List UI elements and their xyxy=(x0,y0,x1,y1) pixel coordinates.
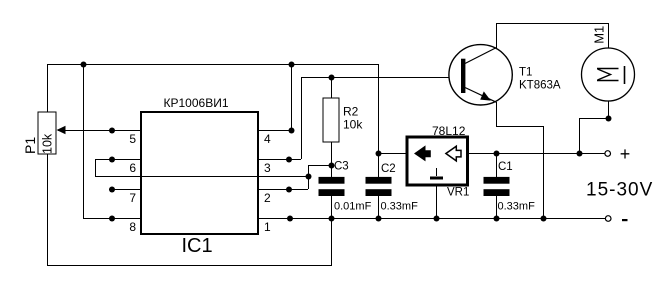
junction top rail / pin4 riser xyxy=(289,62,295,68)
junction pin 2 xyxy=(286,187,292,193)
svg-text:8: 8 xyxy=(129,220,136,234)
capacitor C1 bottom plate xyxy=(484,189,510,196)
svg-text:3: 3 xyxy=(264,161,271,175)
svg-text:P1: P1 xyxy=(22,137,38,154)
svg-text:6: 6 xyxy=(129,161,136,175)
svg-text:10k: 10k xyxy=(343,118,363,132)
transistor T1 base bar xyxy=(461,59,465,93)
wire Vcc riser to pin 8 xyxy=(83,64,85,218)
wire pin6-pin2 link through IC xyxy=(95,176,308,178)
capacitor C2 top plate xyxy=(366,177,392,184)
wire pin 7 stub xyxy=(109,189,141,191)
junction C1 on + rail xyxy=(494,151,500,157)
svg-text:0.33mF: 0.33mF xyxy=(381,201,419,213)
transistor T1 emitter arrow xyxy=(480,91,491,100)
potentiometer P1 wiper arrow xyxy=(57,126,66,134)
motor M1 circle xyxy=(582,48,635,101)
wire pin 2 riser xyxy=(308,165,310,189)
junction node 2/6 through-line xyxy=(306,174,312,180)
wire C1 bottom lead xyxy=(496,196,498,219)
wire motor bottom horizontal xyxy=(579,118,609,120)
svg-text:5: 5 xyxy=(129,132,136,146)
wire motor top drop xyxy=(608,23,610,48)
svg-text:4: 4 xyxy=(264,132,271,146)
terminal + circle xyxy=(605,151,611,157)
junction motor bottom corner xyxy=(606,116,612,122)
VR1 input arrow (hollow) xyxy=(446,146,461,161)
junction emitter on ground rail xyxy=(541,216,547,222)
junction top rail / pin8 riser xyxy=(81,62,87,68)
motor M glyph zigzag xyxy=(598,69,611,80)
junction R2 top on base rail xyxy=(329,75,335,81)
wire node 2/6 to R2-C3 junction xyxy=(308,165,331,167)
wire pin 3 xyxy=(258,159,301,161)
VR1 output arrow (filled) xyxy=(414,145,431,161)
junction VR1 gnd on ground rail xyxy=(434,216,440,222)
wire P1 bottom drop xyxy=(47,154,49,265)
wire VR1 output pin xyxy=(378,153,407,155)
svg-text:10k: 10k xyxy=(41,133,55,154)
svg-text:IC1: IC1 xyxy=(181,235,212,257)
junction C3 on ground rail xyxy=(329,216,335,222)
label - xyxy=(622,219,628,221)
capacitor C3 top plate xyxy=(319,177,345,184)
junction pin 1 xyxy=(287,216,293,222)
wire C2 top lead xyxy=(378,153,380,177)
wire pin 6 loop drop xyxy=(95,159,97,176)
junction C1 on ground rail xyxy=(494,216,500,222)
svg-text:C1: C1 xyxy=(498,161,513,173)
voltage regulator VR1 box xyxy=(407,137,468,185)
wire VR1 ground lead xyxy=(436,185,438,218)
svg-text:C3: C3 xyxy=(334,161,349,173)
svg-text:C2: C2 xyxy=(381,163,396,175)
transistor T1 collector diagonal xyxy=(465,48,497,64)
transistor T1 emitter diagonal xyxy=(465,88,497,103)
wire pin 4 xyxy=(258,130,291,132)
wire C3 bottom lead xyxy=(331,196,333,219)
wire motor to + rail drop xyxy=(579,118,581,153)
svg-text:T1: T1 xyxy=(519,67,532,79)
svg-text:VR1: VR1 xyxy=(447,187,469,199)
svg-text:0.33mF: 0.33mF xyxy=(498,201,536,213)
svg-text:78L12: 78L12 xyxy=(432,124,466,138)
VR1 internal ground bar xyxy=(430,177,443,180)
wire emitter drop xyxy=(496,102,498,126)
wire pin 3 riser xyxy=(301,77,303,159)
wire pin 6 xyxy=(95,159,141,161)
svg-text:R2: R2 xyxy=(343,105,359,119)
motor M glyph bottom bar xyxy=(597,80,619,82)
wire emitter horizontal xyxy=(496,126,543,128)
svg-text:0.01mF: 0.01mF xyxy=(334,201,372,213)
terminal - circle xyxy=(605,216,611,222)
motor M glyph (rotated M) top bar xyxy=(597,68,619,70)
wire +12V top rail xyxy=(47,64,378,66)
wire C1 top lead xyxy=(496,153,498,177)
potentiometer P1 body xyxy=(38,112,56,154)
junction pin 4 xyxy=(289,128,295,134)
svg-text:7: 7 xyxy=(129,191,136,205)
svg-text:15-30V: 15-30V xyxy=(586,180,653,201)
capacitor C2 bottom plate xyxy=(366,189,392,196)
svg-text:1: 1 xyxy=(264,220,271,234)
wire ground rail pin 1 xyxy=(258,218,605,220)
wire bottom rail riser to ground rail xyxy=(331,218,333,265)
svg-text:2: 2 xyxy=(264,191,271,205)
junction motor branch on + rail xyxy=(577,151,583,157)
wire collector riser xyxy=(496,23,498,48)
junction C2 on ground rail xyxy=(376,216,382,222)
wire output rail to base xyxy=(301,77,460,79)
junction pin 5 xyxy=(109,128,115,134)
motor M underline bar xyxy=(624,66,626,84)
junction pin 7 xyxy=(109,187,115,193)
capacitor C3 bottom plate xyxy=(319,189,345,196)
wire pin 4 riser to top rail xyxy=(291,64,293,130)
wire pin 8 xyxy=(83,218,141,220)
wire R2 top lead xyxy=(331,77,333,98)
wire bottom ground return rail xyxy=(47,265,332,267)
wire pin 5 to P1 wiper xyxy=(58,130,141,132)
wire C2 bottom lead xyxy=(378,196,380,219)
wire R2 bottom lead to C3 xyxy=(331,142,333,177)
svg-text:M1: M1 xyxy=(592,26,607,44)
op-amp IC1 body КР1006ВИ1 xyxy=(141,112,258,234)
junction pin 3 xyxy=(286,157,292,163)
wire pin 2 xyxy=(258,189,308,191)
wire emitter riser to ground rail xyxy=(543,126,545,218)
VR1 internal ground pin stub xyxy=(436,168,438,176)
junction VR1 output / C2 / 12V riser xyxy=(376,151,382,157)
wire VR1 input to + rail xyxy=(468,153,605,155)
wire motor bottom lead xyxy=(608,101,610,118)
junction pin 6 xyxy=(109,157,115,163)
transistor T1 circle xyxy=(449,45,512,105)
wire top rail drop to VR1 output xyxy=(378,64,380,153)
wire P1 top riser xyxy=(47,64,49,112)
svg-text:+: + xyxy=(620,144,631,164)
svg-text:KT863A: KT863A xyxy=(519,80,561,92)
svg-text:КР1006ВИ1: КР1006ВИ1 xyxy=(164,96,229,110)
wire collector to motor top link xyxy=(496,23,609,25)
resistor R2 body xyxy=(323,98,339,142)
junction pin 8 xyxy=(109,216,115,222)
junction R2 bottom / C3 / node 2-6 xyxy=(329,163,335,169)
capacitor C1 top plate xyxy=(484,177,510,184)
